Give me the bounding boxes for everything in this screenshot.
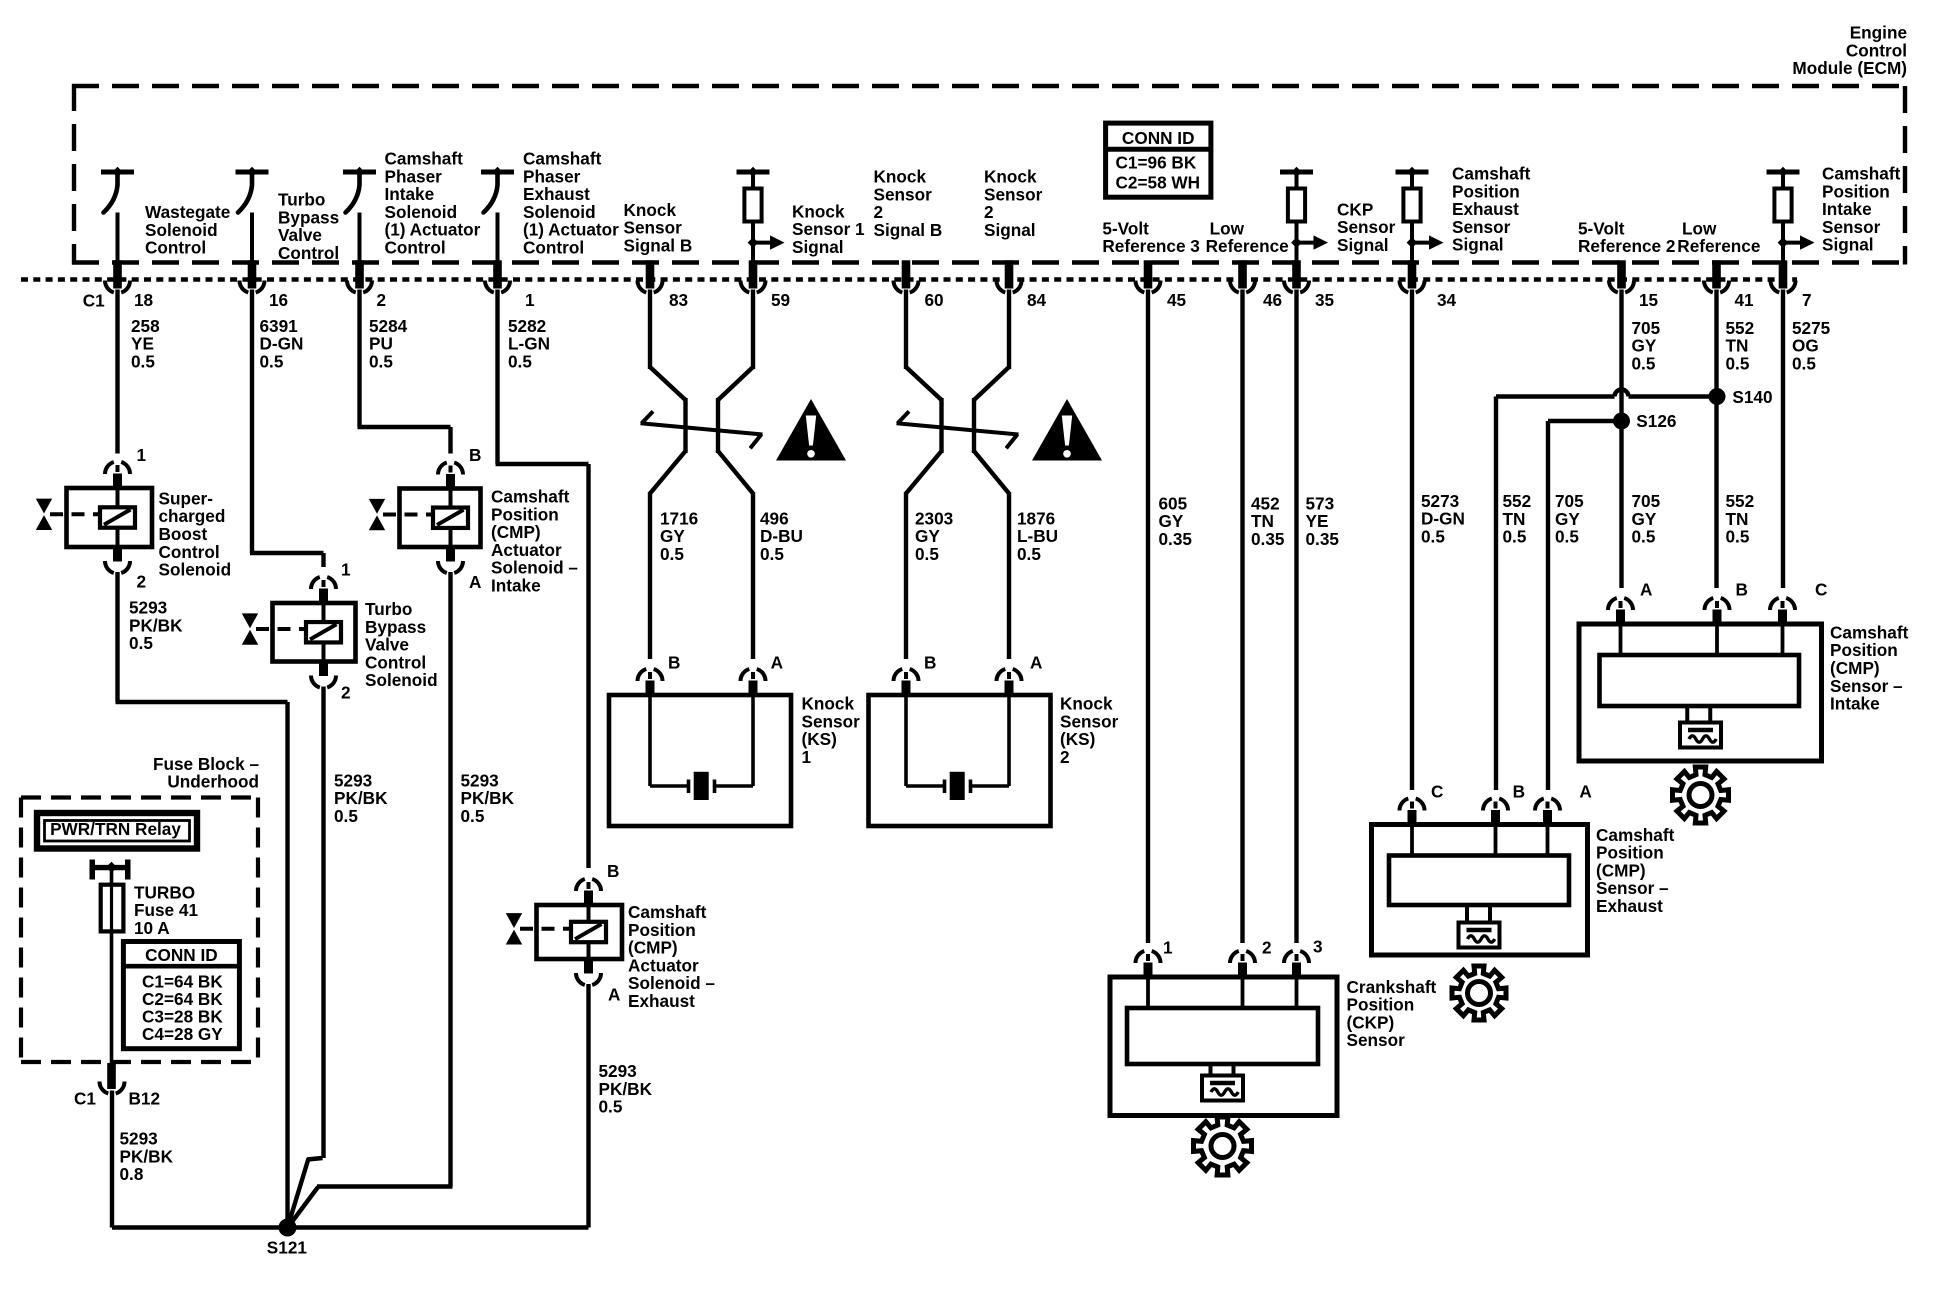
svg-text:0.5: 0.5 bbox=[599, 1097, 623, 1117]
pin 16 number label bbox=[269, 290, 288, 310]
pin 84 function label bbox=[984, 167, 1043, 240]
svg-text:41: 41 bbox=[1735, 290, 1755, 310]
svg-text:S140: S140 bbox=[1732, 387, 1772, 407]
ECM pin 2 driver/terminal bbox=[343, 167, 376, 293]
svg-text:C: C bbox=[1431, 782, 1443, 802]
wire label 552 TN 0.5 (S140 branch) bbox=[1503, 491, 1532, 547]
wire 5293 CMP exhaust solenoid down bbox=[586, 984, 590, 1228]
wire 705 GY pin15 to CMP intake sensor bbox=[1619, 290, 1623, 589]
svg-text:18: 18 bbox=[134, 290, 154, 310]
Supercharged Boost Control Solenoid label bbox=[159, 489, 232, 580]
svg-text:S121: S121 bbox=[267, 1237, 308, 1257]
ECM pin 60 driver/terminal bbox=[893, 260, 918, 292]
wire label 258 YE 0.5 bbox=[131, 316, 160, 372]
svg-text:A: A bbox=[771, 652, 783, 672]
wire 258 YE pin18 to solenoid bbox=[115, 290, 119, 454]
pin 15 function label bbox=[1578, 218, 1675, 256]
ECM pin 34 driver/terminal bbox=[1396, 167, 1444, 293]
svg-text:Reference 3: Reference 3 bbox=[1102, 236, 1199, 256]
warning symbol (knock sensor 1) bbox=[776, 399, 846, 461]
wire label 1716 GY 0.5 bbox=[660, 508, 698, 564]
svg-text:45: 45 bbox=[1167, 290, 1187, 310]
Turbo Bypass Valve Control Solenoid pin 1 bbox=[311, 559, 351, 604]
pin 15 number label bbox=[1639, 290, 1659, 310]
wire fuse to B12 bbox=[110, 931, 114, 1063]
svg-text:16: 16 bbox=[269, 290, 288, 310]
svg-text:Reference 2: Reference 2 bbox=[1578, 236, 1675, 256]
wire label 5275 OG 0.5 bbox=[1792, 318, 1831, 374]
svg-text:0.5: 0.5 bbox=[660, 544, 684, 564]
svg-text:Signal: Signal bbox=[1822, 235, 1874, 255]
svg-text:Control: Control bbox=[278, 243, 339, 263]
C1 connector label bbox=[83, 291, 105, 311]
pin 46 number label bbox=[1263, 290, 1282, 310]
CMP intake reluctor gear bbox=[1673, 767, 1729, 823]
CMP Actuator Solenoid Intake label bbox=[491, 487, 578, 596]
svg-text:1: 1 bbox=[341, 559, 351, 579]
svg-text:0.5: 0.5 bbox=[334, 806, 358, 826]
CKP pin number labels bbox=[1163, 937, 1323, 958]
CMP Actuator Solenoid Exhaust bbox=[506, 905, 622, 959]
ECM title text bbox=[1792, 23, 1907, 79]
pin 1 number label bbox=[525, 290, 535, 310]
svg-text:Signal: Signal bbox=[984, 220, 1036, 240]
ECM pin 1 driver/terminal bbox=[481, 167, 514, 293]
pin 7 number label bbox=[1802, 290, 1812, 310]
wire 5275 OG pin7 to CMP intake sensor bbox=[1781, 290, 1785, 589]
pin 59 number label bbox=[771, 290, 790, 310]
wire label 2303 GY 0.5 bbox=[915, 508, 953, 564]
pin 46 function label line2 bbox=[1206, 236, 1289, 256]
svg-text:0.35: 0.35 bbox=[1306, 529, 1340, 549]
svg-text:46: 46 bbox=[1263, 290, 1282, 310]
pin 60 function label bbox=[874, 167, 943, 240]
pin 41 function label line2 bbox=[1677, 236, 1760, 256]
svg-text:Control: Control bbox=[523, 237, 584, 257]
svg-text:0.5: 0.5 bbox=[1726, 527, 1750, 547]
wire label 5293 PK/BK 0.5 (CMP intake solenoid) bbox=[461, 770, 515, 826]
CMP Actuator Solenoid Exhaust pin A bbox=[576, 958, 620, 1005]
wire 5282 L-GN pin1 to CMP exhaust solenoid bbox=[496, 290, 589, 869]
svg-text:Solenoid: Solenoid bbox=[159, 560, 232, 580]
CONN ID table (fuse block) bbox=[123, 942, 239, 1049]
svg-text:Control: Control bbox=[145, 238, 206, 258]
CMP Sensor Exhaust label bbox=[1596, 825, 1675, 916]
svg-text:0.5: 0.5 bbox=[1503, 527, 1527, 547]
Supercharged Boost Control Solenoid bbox=[36, 488, 152, 547]
pin 41 function label bbox=[1682, 218, 1717, 238]
svg-text:0.5: 0.5 bbox=[760, 544, 784, 564]
ECM pin 35 driver/terminal bbox=[1280, 167, 1328, 293]
Supercharged Boost Control Solenoid pin 2 bbox=[105, 546, 146, 592]
svg-text:B: B bbox=[668, 652, 680, 672]
svg-text:83: 83 bbox=[669, 290, 688, 310]
svg-text:Intake: Intake bbox=[1830, 694, 1880, 714]
CMP exhaust reluctor gear bbox=[1452, 966, 1506, 1020]
svg-text:0.35: 0.35 bbox=[1159, 529, 1193, 549]
wire label 6391 D-GN 0.5 bbox=[260, 316, 304, 372]
svg-text:B12: B12 bbox=[129, 1089, 161, 1109]
wire label 5293 PK/BK 0.5 (turbo solenoid) bbox=[334, 770, 388, 826]
pin 84 number label bbox=[1027, 290, 1047, 310]
svg-text:Reference: Reference bbox=[1677, 236, 1760, 256]
pin 34 number label bbox=[1437, 290, 1457, 310]
wire 6391 D-GN pin16 to turbo solenoid bbox=[250, 290, 324, 568]
svg-text:1: 1 bbox=[137, 445, 147, 465]
wire to KS2 pin B bbox=[904, 492, 908, 659]
Turbo Bypass Valve Control Solenoid label bbox=[365, 599, 438, 690]
ECM pin 45 driver/terminal bbox=[1135, 260, 1160, 292]
pin 7 function label bbox=[1822, 164, 1901, 255]
svg-text:0.5: 0.5 bbox=[369, 351, 393, 371]
pin 41 number label bbox=[1735, 290, 1755, 310]
svg-text:2: 2 bbox=[1060, 747, 1070, 767]
svg-text:0.5: 0.5 bbox=[1632, 353, 1656, 373]
svg-text:Signal B: Signal B bbox=[624, 235, 693, 255]
wire B12 to S121 bbox=[112, 1091, 589, 1228]
Fuse Block Underhood dashed box bbox=[21, 798, 258, 1063]
svg-text:0.5: 0.5 bbox=[1555, 527, 1579, 547]
Camshaft Position CMP Sensor Intake bbox=[1579, 598, 1822, 761]
svg-text:84: 84 bbox=[1027, 290, 1047, 310]
svg-text:Solenoid: Solenoid bbox=[365, 670, 438, 690]
svg-text:Signal: Signal bbox=[1337, 235, 1389, 255]
svg-text:0.5: 0.5 bbox=[1632, 527, 1656, 547]
relay output terminal bbox=[90, 860, 131, 880]
pin 59 function label bbox=[792, 202, 865, 258]
svg-text:Exhaust: Exhaust bbox=[628, 991, 695, 1011]
svg-text:0.5: 0.5 bbox=[1421, 526, 1445, 546]
ECM pin 83 driver/terminal bbox=[637, 260, 662, 292]
pin 35 number label bbox=[1315, 290, 1335, 310]
svg-text:A: A bbox=[1579, 782, 1591, 802]
wire label 552 TN 0.5 bbox=[1726, 318, 1755, 374]
wire label 1876 L-BU 0.5 bbox=[1017, 508, 1058, 564]
wire 5273 D-GN pin34 to CMP exhaust sensor bbox=[1410, 290, 1414, 791]
ECM pin 16 driver/terminal bbox=[236, 167, 269, 293]
svg-text:B: B bbox=[1736, 579, 1748, 599]
wire label 705 GY 0.5 (pin15 run) bbox=[1632, 491, 1661, 547]
CMP exhaust pin letters bbox=[1431, 782, 1592, 802]
svg-text:1: 1 bbox=[1163, 938, 1173, 958]
svg-text:C1: C1 bbox=[83, 291, 105, 311]
wire 5293 turbo solenoid to S121 bbox=[288, 687, 324, 1227]
svg-text:PWR/TRN Relay: PWR/TRN Relay bbox=[50, 819, 181, 839]
svg-text:Signal: Signal bbox=[1452, 235, 1504, 255]
svg-text:0.35: 0.35 bbox=[1251, 529, 1285, 549]
pin 45 function label bbox=[1102, 218, 1199, 256]
svg-text:A: A bbox=[469, 572, 481, 592]
pin 45 number label bbox=[1167, 290, 1187, 310]
wire label 705 GY 0.5 bbox=[1632, 318, 1661, 374]
ECM pin 7 driver/terminal bbox=[1767, 167, 1815, 293]
svg-text:A: A bbox=[608, 985, 620, 1005]
pin 83 number label bbox=[669, 290, 688, 310]
svg-text:7: 7 bbox=[1802, 290, 1812, 310]
pin 83 function label bbox=[624, 200, 693, 256]
wire 573 YE pin35 to CKP bbox=[1294, 290, 1298, 944]
PWR/TRN Relay box bbox=[37, 813, 197, 849]
svg-text:CONN ID: CONN ID bbox=[145, 945, 218, 965]
CMP Actuator Solenoid Intake pin B bbox=[438, 445, 481, 490]
pin 2 number label bbox=[377, 290, 387, 310]
svg-text:59: 59 bbox=[771, 290, 790, 310]
splice S140 and branch to CMP exhaust pin B bbox=[1496, 388, 1726, 790]
S126 label bbox=[1636, 411, 1676, 431]
wire 5293 boost solenoid to S121 bbox=[116, 572, 288, 1228]
wire to KS1 pin B bbox=[648, 492, 652, 659]
svg-text:2: 2 bbox=[137, 571, 147, 591]
splice S121 bbox=[267, 1219, 308, 1258]
svg-text:0.8: 0.8 bbox=[120, 1164, 144, 1184]
svg-text:A: A bbox=[1030, 652, 1042, 672]
wire label 705 GY 0.5 (S126 branch) bbox=[1555, 491, 1584, 547]
twisted pair knock sensor 1 wires (1716 GY / 496 D-BU) bbox=[641, 290, 763, 494]
ECM (Engine Control Module) dashed box bbox=[72, 84, 1907, 265]
pin 34 function label bbox=[1452, 164, 1531, 255]
svg-text:0.5: 0.5 bbox=[508, 351, 532, 371]
svg-text:C1=96 BK: C1=96 BK bbox=[1116, 153, 1197, 173]
wire label 552 TN 0.5 (pin41 run) bbox=[1726, 491, 1755, 547]
warning symbol (knock sensor 2) bbox=[1032, 399, 1102, 461]
svg-text:Exhaust: Exhaust bbox=[1596, 896, 1663, 916]
CKP Sensor label bbox=[1347, 977, 1437, 1050]
CMP intake pin letters bbox=[1640, 579, 1827, 599]
svg-text:1: 1 bbox=[802, 747, 812, 767]
svg-text:Signal: Signal bbox=[792, 237, 844, 257]
S140 label bbox=[1732, 387, 1772, 407]
svg-text:Sensor: Sensor bbox=[1347, 1030, 1406, 1050]
svg-text:C1: C1 bbox=[74, 1089, 96, 1109]
Knock Sensor KS2 label bbox=[1060, 694, 1119, 767]
Turbo Bypass Valve Control Solenoid pin 2 bbox=[311, 660, 351, 703]
svg-text:B: B bbox=[1513, 782, 1525, 802]
pin 35 function label bbox=[1337, 199, 1396, 255]
svg-text:0.5: 0.5 bbox=[461, 806, 485, 826]
Fuse Block label bbox=[153, 754, 259, 792]
wire label 452 TN 0.35 bbox=[1251, 493, 1285, 549]
svg-text:2: 2 bbox=[341, 683, 351, 703]
svg-text:0.5: 0.5 bbox=[131, 351, 155, 371]
CMP Actuator Solenoid Intake bbox=[369, 489, 481, 548]
ECM connector dotted line bbox=[21, 277, 1797, 282]
svg-text:B: B bbox=[924, 652, 936, 672]
svg-text:C2=58 WH: C2=58 WH bbox=[1116, 173, 1201, 193]
svg-text:Reference: Reference bbox=[1206, 236, 1289, 256]
CMP Actuator Solenoid Exhaust label bbox=[628, 902, 715, 1011]
wire to KS1 pin A bbox=[751, 492, 755, 659]
CMP Sensor Intake label bbox=[1830, 623, 1909, 714]
splice S126 and branch to CMP exhaust pin A bbox=[1548, 413, 1630, 791]
svg-text:1: 1 bbox=[525, 290, 535, 310]
svg-text:Intake: Intake bbox=[491, 576, 541, 596]
svg-text:10 A: 10 A bbox=[134, 918, 170, 938]
CONN ID table (ECM) bbox=[1106, 123, 1211, 197]
svg-text:3: 3 bbox=[1313, 937, 1323, 957]
pin 46 function label bbox=[1210, 218, 1245, 238]
pin 2 function label bbox=[385, 149, 481, 258]
wire 452 TN pin46 to CKP bbox=[1240, 290, 1244, 944]
svg-text:0.5: 0.5 bbox=[129, 633, 153, 653]
svg-text:Module (ECM): Module (ECM) bbox=[1792, 58, 1907, 78]
wire 605 GY pin45 to CKP bbox=[1146, 290, 1150, 944]
Turbo Bypass Valve Control Solenoid bbox=[242, 603, 356, 662]
wire label 605 GY 0.35 bbox=[1159, 493, 1193, 549]
svg-text:Underhood: Underhood bbox=[167, 772, 259, 792]
svg-text:Control: Control bbox=[385, 237, 446, 257]
wire label 5282 L-GN 0.5 bbox=[508, 316, 550, 372]
svg-text:15: 15 bbox=[1639, 290, 1659, 310]
wire label 5293 PK/BK 0.5 (boost solenoid) bbox=[129, 598, 183, 654]
ECM pin 46 driver/terminal bbox=[1230, 260, 1255, 292]
CMP Actuator Solenoid Exhaust pin B bbox=[576, 861, 619, 907]
ECM pin 41 driver/terminal bbox=[1704, 260, 1729, 292]
svg-text:S126: S126 bbox=[1636, 411, 1676, 431]
Knock Sensor KS1 bbox=[609, 652, 791, 826]
pin 16 function label bbox=[278, 190, 339, 263]
TURBO fuse label bbox=[134, 882, 198, 938]
wire label 5293 PK/BK 0.5 (CMP exhaust solenoid) bbox=[599, 1061, 653, 1117]
Knock Sensor KS1 label bbox=[802, 694, 861, 767]
Supercharged Boost Control Solenoid pin 1 bbox=[105, 445, 147, 489]
Knock Sensor KS2 bbox=[869, 652, 1051, 826]
svg-text:35: 35 bbox=[1315, 290, 1335, 310]
svg-text:60: 60 bbox=[925, 290, 944, 310]
svg-text:CONN ID: CONN ID bbox=[1122, 128, 1195, 148]
svg-text:C4=28 GY: C4=28 GY bbox=[142, 1024, 223, 1044]
svg-text:0.5: 0.5 bbox=[1792, 353, 1816, 373]
svg-text:B: B bbox=[607, 861, 619, 881]
svg-text:0.5: 0.5 bbox=[915, 544, 939, 564]
ECM pin 15 driver/terminal bbox=[1609, 260, 1634, 292]
B12 connector bbox=[74, 1063, 160, 1109]
svg-text:C: C bbox=[1815, 579, 1827, 599]
ECM pin 84 driver/terminal bbox=[996, 260, 1021, 292]
ECM pin 18 driver/terminal bbox=[101, 167, 134, 293]
TURBO fuse 41 bbox=[101, 870, 124, 931]
svg-text:0.5: 0.5 bbox=[1726, 353, 1750, 373]
svg-text:2: 2 bbox=[377, 290, 387, 310]
CKP reluctor gear bbox=[1194, 1117, 1252, 1175]
svg-text:0.5: 0.5 bbox=[1017, 544, 1041, 564]
pin 18 function label bbox=[145, 202, 230, 258]
Crankshaft Position CKP Sensor bbox=[1110, 951, 1337, 1116]
wire to KS2 pin A bbox=[1007, 492, 1011, 659]
svg-text:B: B bbox=[469, 445, 481, 465]
ECM pin 59 driver/terminal bbox=[737, 167, 785, 293]
pin 1 function label bbox=[523, 149, 619, 258]
wire label 5273 D-GN 0.5 bbox=[1421, 491, 1465, 547]
wire label 5284 PU 0.5 bbox=[369, 316, 408, 372]
pin 60 number label bbox=[925, 290, 944, 310]
wire label 5293 PK/BK 0.8 bbox=[120, 1129, 174, 1185]
wire label 496 D-BU 0.5 bbox=[760, 508, 803, 564]
svg-text:34: 34 bbox=[1437, 290, 1457, 310]
wire 5284 PU pin2 to CMP intake solenoid bbox=[358, 290, 451, 454]
svg-text:0.5: 0.5 bbox=[260, 351, 284, 371]
wire 5293 CMP intake solenoid to S121 bbox=[289, 572, 453, 1227]
pin 18 number label bbox=[134, 290, 154, 310]
twisted pair knock sensor 2 wires (2303 GY / 1876 L-BU) bbox=[897, 290, 1019, 494]
wire label 573 YE 0.35 bbox=[1306, 493, 1340, 549]
Camshaft Position CMP Sensor Exhaust bbox=[1372, 799, 1588, 956]
wire 552 TN pin41 to CMP intake sensor bbox=[1714, 290, 1718, 589]
svg-text:2: 2 bbox=[1262, 938, 1272, 958]
svg-text:A: A bbox=[1640, 579, 1652, 599]
CMP Actuator Solenoid Intake pin A bbox=[438, 546, 481, 592]
svg-text:Signal B: Signal B bbox=[874, 220, 943, 240]
